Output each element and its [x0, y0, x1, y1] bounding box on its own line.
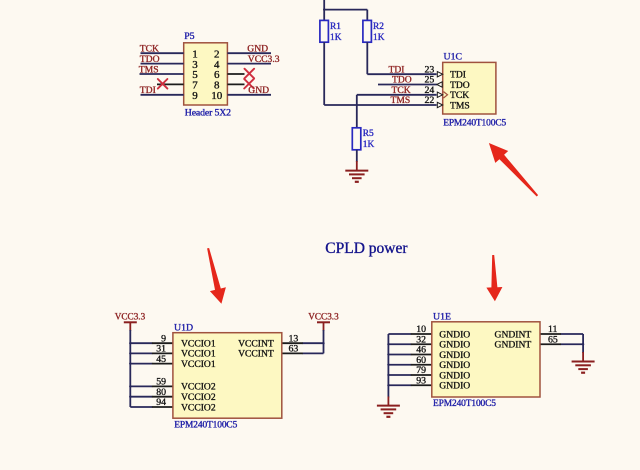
- wire R1 bottom to TMS row: [323, 42, 325, 105]
- svg-text:22: 22: [425, 95, 435, 106]
- pin U1D left row 3: [152, 363, 173, 365]
- ground stub right of U1E: [582, 352, 584, 361]
- pin U1D pin63: [282, 352, 303, 354]
- no-connect X on P5 pin 8: [244, 79, 254, 89]
- pin arrow out of U1C pin25 (output): [437, 82, 442, 87]
- svg-text:1K: 1K: [363, 140, 375, 150]
- wire U1D left pin row 4: [130, 385, 152, 387]
- svg-text:TMS: TMS: [139, 64, 159, 75]
- wire VCC feed vertical (top edge): [323, 0, 325, 20]
- wire TCK down to R5: [356, 95, 358, 128]
- svg-text:1K: 1K: [373, 33, 385, 43]
- wire U1E left pin row 3: [388, 354, 411, 356]
- wire P5 pin5 TMS: [140, 73, 184, 75]
- IC body U1D: [173, 333, 282, 419]
- resistor R2: [363, 20, 372, 42]
- wire P5 pin2 GND: [227, 52, 271, 54]
- wire TDI to U1C pin23: [367, 73, 436, 75]
- svg-text:Header 5X2: Header 5X2: [185, 108, 231, 119]
- pin U1E left row 4: [411, 364, 432, 366]
- pin P5-8 stub: [227, 83, 244, 85]
- junction at R1/R2 branch: [323, 8, 325, 10]
- wire U1E left pin row 2: [388, 343, 411, 345]
- IC body U1E: [432, 322, 540, 397]
- svg-text:TMS: TMS: [450, 100, 470, 111]
- ground stub left of U1E: [387, 397, 389, 406]
- pin arrow into U1C pin23 (input): [437, 72, 442, 77]
- no-connect X on P5 pin 7: [158, 79, 168, 89]
- connector P5 body (Header 5X2): [184, 43, 228, 105]
- junction on U1D left bus row 5: [129, 396, 131, 398]
- svg-text:TMS: TMS: [391, 95, 411, 106]
- wire R5 bottom to ground: [356, 150, 358, 162]
- pin U1D pin13: [282, 342, 303, 344]
- wire U1D left pin row 3: [130, 363, 152, 365]
- junction on U1E right bus: [582, 343, 584, 345]
- svg-text:63: 63: [289, 344, 299, 355]
- wire VCC bus left of U1D: [129, 330, 131, 407]
- svg-text:R2: R2: [373, 22, 384, 32]
- wire U1D left pin row 6: [130, 406, 152, 408]
- red annotation arrow pointing at U1D: [207, 248, 226, 304]
- svg-text:GNDINT: GNDINT: [495, 340, 532, 351]
- svg-text:TCK: TCK: [140, 44, 159, 55]
- svg-text:TDI: TDI: [140, 85, 156, 96]
- pin P5-6 stub: [227, 73, 244, 75]
- wire U1D left pin row 5: [130, 396, 152, 398]
- svg-text:VCC3.3: VCC3.3: [115, 311, 146, 321]
- pin U1E pin11: [540, 333, 561, 335]
- pin arrow into U1C pin22 (input): [437, 102, 442, 107]
- pin arrow into U1C pin24 (input): [437, 92, 442, 97]
- ground stub (R5): [356, 161, 358, 170]
- wire U1E left pin row 5: [388, 374, 411, 376]
- power port VCC3.3 (left of U1D): [115, 311, 146, 331]
- wire R2 top: [366, 10, 368, 21]
- svg-text:R1: R1: [330, 22, 341, 32]
- pin U1D left row 2: [152, 352, 173, 354]
- wire TDO stub to U1C pin25: [378, 84, 437, 86]
- pin U1D left row 4: [152, 385, 173, 387]
- svg-text:VCC3.3: VCC3.3: [308, 311, 339, 321]
- svg-text:GND: GND: [248, 85, 269, 96]
- wire U1E right pin65: [561, 343, 584, 345]
- junction on U1D left bus row 2: [129, 352, 131, 354]
- pin U1E left row 1: [411, 333, 432, 335]
- wire U1E left pin row 6: [388, 384, 411, 386]
- IC body U1C: [443, 62, 496, 114]
- svg-text:R5: R5: [363, 129, 374, 139]
- ground symbol right of U1E: [572, 362, 595, 373]
- junction on U1E left bus row 5: [387, 374, 389, 376]
- wire U1D left pin row 1: [130, 342, 152, 344]
- pin U1D left row 1: [152, 342, 173, 344]
- junction on U1E left bus row 2: [387, 343, 389, 345]
- wire U1D right pin63: [302, 352, 323, 354]
- svg-text:65: 65: [548, 334, 558, 345]
- svg-text:U1C: U1C: [444, 51, 463, 62]
- svg-text:VCC3.3: VCC3.3: [248, 54, 280, 65]
- svg-text:TDO: TDO: [140, 54, 160, 65]
- wire GND bus left of U1E: [387, 334, 389, 398]
- svg-text:VCCINT: VCCINT: [238, 349, 274, 360]
- resistor R5: [352, 128, 361, 150]
- wire P5 pin10 GND: [227, 94, 271, 96]
- svg-text:93: 93: [416, 375, 426, 386]
- svg-text:GNDIO: GNDIO: [439, 381, 470, 392]
- pin U1E left row 6: [411, 384, 432, 386]
- svg-text:EPM240T100C5: EPM240T100C5: [174, 420, 237, 430]
- svg-text:10: 10: [211, 90, 223, 102]
- wire GND bus right of U1E: [582, 334, 584, 353]
- pin U1D left row 6: [152, 406, 173, 408]
- svg-text:P5: P5: [184, 31, 194, 42]
- svg-text:45: 45: [156, 354, 166, 365]
- junction on U1E left bus row 6: [387, 384, 389, 386]
- wire VCC bus right of U1D: [323, 330, 325, 353]
- P5 pin numbers left column 1 3 5 7 9: [192, 48, 198, 102]
- wire U1D right pin13: [302, 342, 323, 344]
- power port VCC3.3 (right of U1D): [308, 311, 339, 331]
- pin U1E left row 3: [411, 354, 432, 356]
- pin U1D left row 5: [152, 396, 173, 398]
- svg-text:U1E: U1E: [433, 312, 451, 323]
- P5 pin numbers right column 2 4 6 8 10: [211, 48, 223, 102]
- red annotation arrow pointing at U1E: [486, 255, 502, 301]
- pin U1E pin65: [540, 343, 561, 345]
- wire P5 pin1 TCK: [141, 52, 184, 54]
- wire U1E left pin row 1: [388, 333, 411, 335]
- wire TMS to U1C pin22: [324, 104, 436, 106]
- svg-text:VCCIO2: VCCIO2: [181, 402, 216, 413]
- wire R2 bottom to TDI row: [366, 42, 368, 74]
- junction on U1D left bus row 4: [129, 385, 131, 387]
- svg-text:EPM240T100C5: EPM240T100C5: [443, 119, 506, 129]
- svg-text:EPM240T100C5: EPM240T100C5: [433, 399, 496, 409]
- wire branch to R2 top: [324, 9, 367, 11]
- junction on U1E left bus row 4: [387, 364, 389, 366]
- wire U1E left pin row 4: [388, 364, 411, 366]
- no-connect X on P5 pin 6: [245, 69, 255, 79]
- wire U1E right pin11: [561, 333, 584, 335]
- wire U1D left pin row 2: [130, 352, 152, 354]
- svg-text:94: 94: [156, 397, 166, 408]
- ground symbol left of U1E: [377, 406, 400, 417]
- svg-text:9: 9: [192, 90, 198, 102]
- wire P5 pin3 TDO: [141, 63, 184, 65]
- svg-text:1K: 1K: [330, 33, 342, 43]
- svg-text:GND: GND: [247, 44, 268, 55]
- pin P5-7 stub: [157, 83, 184, 85]
- wire P5 pin9 TDI: [141, 94, 184, 96]
- wire TCK to U1C pin24: [357, 94, 437, 96]
- junction on U1D left bus row 3: [129, 362, 131, 364]
- junction on U1D right bus: [322, 342, 324, 344]
- pin U1E left row 2: [411, 343, 432, 345]
- clock mark on U1C pin24: [444, 92, 448, 98]
- svg-text:VCCIO1: VCCIO1: [181, 359, 216, 370]
- red annotation arrow pointing at U1C: [489, 143, 538, 197]
- svg-text:U1D: U1D: [174, 323, 193, 334]
- junction on U1E left bus row 3: [387, 353, 389, 355]
- ground symbol under R5: [345, 171, 368, 182]
- pin U1E left row 5: [411, 374, 432, 376]
- resistor R1: [320, 20, 329, 42]
- svg-text:CPLD power: CPLD power: [325, 240, 408, 257]
- wire P5 pin4 VCC3.3: [227, 63, 271, 65]
- junction on U1D left bus row 1: [129, 342, 131, 344]
